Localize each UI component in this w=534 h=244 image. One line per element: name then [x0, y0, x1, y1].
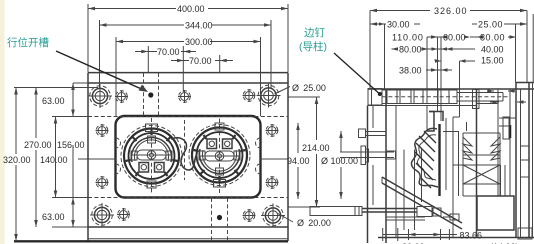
svg-text:边钉: 边钉: [304, 27, 325, 39]
svg-text:63.00: 63.00: [42, 212, 65, 222]
svg-text:80.00: 80.00: [480, 33, 505, 43]
svg-text:300.00: 300.00: [185, 37, 213, 47]
svg-text:140.00: 140.00: [40, 155, 68, 165]
svg-text:Ø 20.00: Ø 20.00: [297, 218, 331, 228]
svg-text:156.00: 156.00: [57, 140, 85, 150]
svg-text:80.00: 80.00: [399, 45, 422, 55]
svg-text:110.00: 110.00: [392, 33, 424, 43]
svg-text:344.00: 344.00: [185, 21, 213, 31]
svg-text:40.00: 40.00: [481, 45, 504, 55]
svg-text:38.00: 38.00: [399, 66, 422, 76]
svg-text:214.00: 214.00: [302, 143, 330, 153]
svg-text:70.00: 70.00: [157, 47, 180, 57]
svg-text:60.00: 60.00: [443, 33, 466, 43]
svg-text:326.00: 326.00: [434, 6, 468, 16]
svg-text:(导柱): (导柱): [299, 40, 327, 53]
svg-text:63.00: 63.00: [42, 96, 65, 106]
svg-text:70.00: 70.00: [189, 56, 212, 66]
svg-text:83.66: 83.66: [460, 231, 483, 241]
svg-text:30.00: 30.00: [387, 20, 410, 30]
svg-text:400.00: 400.00: [177, 4, 205, 14]
svg-text:270.00: 270.00: [24, 140, 52, 150]
svg-text:15.00: 15.00: [481, 56, 504, 66]
svg-text:320.00: 320.00: [3, 155, 31, 165]
svg-text:Ø 25.00: Ø 25.00: [292, 83, 326, 93]
svg-text:行位开槽: 行位开槽: [7, 36, 49, 49]
svg-text:94.00: 94.00: [287, 156, 310, 166]
svg-text:25.00: 25.00: [478, 20, 503, 30]
